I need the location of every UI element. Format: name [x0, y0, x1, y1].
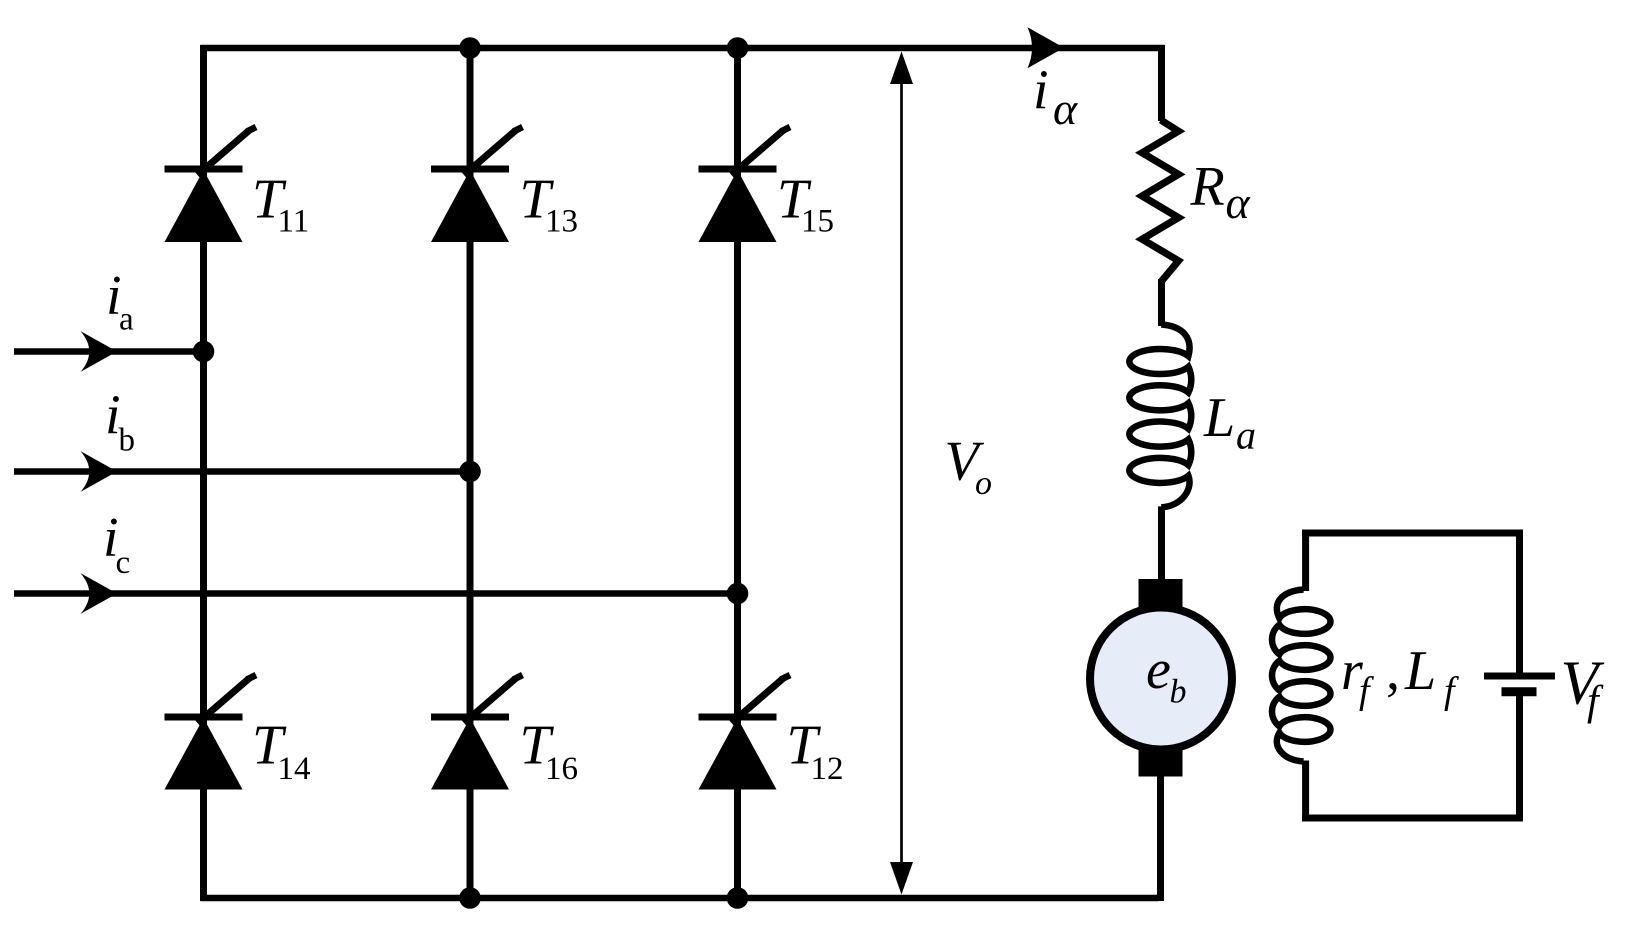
svg-text:L: L [1203, 387, 1235, 449]
label T12 [787, 714, 844, 787]
motor armature terminal top (black square) [1139, 579, 1183, 609]
wire bridge leg a (phase a) [200, 45, 207, 901]
svg-text:b: b [1170, 674, 1187, 711]
svg-text:12: 12 [811, 751, 844, 787]
label T13 [520, 169, 579, 240]
arrowhead ia [81, 331, 118, 372]
svg-text:16: 16 [545, 751, 578, 787]
wire field circuit left top segment [1302, 530, 1309, 592]
svg-text:α: α [1053, 83, 1078, 134]
junction bottom rail / leg b [459, 887, 481, 909]
svg-text:α: α [1226, 177, 1251, 228]
label T16 [520, 714, 579, 787]
svg-text:c: c [116, 545, 131, 581]
label e_b [1146, 639, 1187, 711]
wire field circuit left bottom segment [1302, 761, 1309, 822]
label T11 [252, 169, 309, 240]
thyristor T13 [431, 127, 523, 242]
svg-text:e: e [1146, 639, 1171, 701]
wire bottom negative rail [201, 895, 1159, 902]
wire top positive rail [201, 45, 1165, 52]
svg-text:,: , [1386, 640, 1400, 702]
motor armature circle e_b [1090, 608, 1232, 750]
arrowhead ic [81, 573, 118, 614]
wire right branch top (rail corner down to resistor) [1158, 45, 1165, 121]
resistor R_alpha [1142, 120, 1178, 282]
inductor field coil rf,Lf [1272, 590, 1331, 762]
label r_f , L_f [1341, 640, 1459, 712]
wire field circuit top [1302, 530, 1523, 537]
label T14 [252, 714, 311, 787]
battery Vf short plate (-) [1502, 687, 1537, 696]
wire field circuit bottom [1302, 815, 1523, 822]
junction ia / leg a [193, 341, 215, 363]
junction top rail / leg b [459, 37, 481, 59]
thyristor T11 [165, 127, 257, 242]
battery Vf long plate (+) [1484, 673, 1555, 680]
wire input phase a current ia [14, 348, 204, 355]
wire bridge leg c (phase c) [734, 48, 741, 898]
label i_a [106, 265, 134, 338]
junction ib / leg b [459, 461, 481, 483]
thyristor T12 [699, 675, 791, 790]
svg-text:a: a [1236, 413, 1256, 458]
svg-text:13: 13 [545, 204, 578, 240]
label V_o [945, 431, 993, 503]
svg-text:a: a [119, 302, 134, 338]
wire motor bottom to bottom rail [1157, 774, 1164, 901]
svg-text:R: R [1190, 155, 1225, 217]
label i_alpha [1033, 60, 1078, 135]
thyristor T14 [165, 675, 257, 790]
svg-text:15: 15 [801, 204, 834, 240]
label T15 [777, 169, 834, 240]
svg-text:11: 11 [278, 204, 310, 240]
thyristor T16 [431, 675, 523, 790]
junction ic / leg c [727, 583, 749, 605]
arrowhead output current i_alpha [1028, 27, 1065, 68]
wire field circuit right bottom segment [1516, 696, 1523, 822]
wire between inductor La and motor [1158, 506, 1165, 582]
annotation arrow Vo (output voltage, double-headed) [890, 52, 913, 895]
svg-text:o: o [975, 465, 992, 502]
svg-text:L: L [1404, 640, 1436, 702]
wire between resistor and inductor La [1158, 279, 1165, 326]
svg-text:i: i [1033, 60, 1049, 122]
junction bottom rail / leg c [727, 887, 749, 909]
label V_f [1561, 650, 1605, 725]
wire input phase b current ib [14, 468, 470, 475]
arrowhead ib [81, 451, 118, 492]
wire input phase c current ic [14, 590, 738, 597]
svg-text:b: b [119, 423, 136, 459]
label i_c [103, 507, 130, 581]
label R_alpha [1190, 155, 1251, 228]
wire field circuit right top segment [1516, 530, 1523, 677]
label L_a [1203, 387, 1256, 458]
wire bridge leg b (phase b) [467, 48, 474, 898]
label i_b [105, 385, 135, 459]
junction top rail / leg c [727, 37, 749, 59]
motor armature terminal bottom (black square) [1139, 747, 1183, 777]
inductor La (armature inductance) [1129, 325, 1191, 508]
thyristor T15 [699, 127, 791, 242]
svg-text:14: 14 [278, 751, 311, 787]
